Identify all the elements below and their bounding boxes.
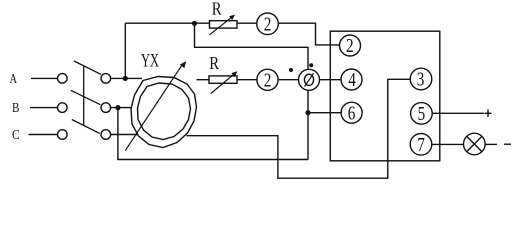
junction dot on top rail bbox=[192, 21, 197, 26]
svg-text:C: C bbox=[12, 128, 20, 143]
wire A to regulator bbox=[111, 77, 142, 79]
wire terminal 7 to lamp bbox=[432, 143, 464, 145]
svg-text:R: R bbox=[209, 53, 219, 73]
switch blade A bbox=[74, 61, 101, 74]
voltage regulator outer ring bbox=[131, 77, 197, 148]
switch blade B bbox=[71, 90, 101, 104]
wire B to regulator bbox=[111, 107, 132, 109]
wire riser from A junction to top rail bbox=[124, 23, 126, 78]
svg-text:6: 6 bbox=[348, 102, 356, 124]
polarity dot near phase shifter top bbox=[309, 63, 313, 67]
plus sign bbox=[485, 112, 492, 114]
phase shifter phi symbol bbox=[304, 74, 313, 85]
switch contact circle B left bbox=[58, 103, 68, 113]
meter circle 2a bbox=[257, 13, 279, 35]
svg-text:A: A bbox=[10, 72, 18, 87]
wire A lead bbox=[31, 77, 57, 79]
switch gang linkage bar bbox=[83, 66, 85, 126]
wire top rail right segment bbox=[278, 23, 340, 45]
switch contact circle B right bbox=[101, 103, 111, 113]
phase shifter circle bbox=[299, 69, 320, 90]
wire B lead bbox=[30, 107, 57, 109]
terminal circle 2 bbox=[340, 35, 361, 56]
wire C to regulator bbox=[111, 134, 141, 136]
switch blade C bbox=[72, 120, 100, 134]
wire C lead bbox=[29, 134, 58, 136]
terminal box bbox=[330, 31, 440, 161]
wire R2 to meter 2b bbox=[237, 79, 257, 81]
svg-text:4: 4 bbox=[348, 69, 356, 91]
wire top rail mid segment bbox=[237, 22, 257, 24]
switch contact circle A left bbox=[58, 74, 68, 84]
resistor R1 body bbox=[210, 21, 238, 28]
svg-text:7: 7 bbox=[417, 134, 425, 156]
switch contact circle C right bbox=[101, 130, 111, 140]
terminal circle 7 bbox=[410, 134, 432, 156]
switch contact circle C left bbox=[58, 130, 68, 140]
polarity dot left of phase shifter bbox=[289, 68, 293, 72]
junction dot on drop bbox=[305, 110, 310, 115]
svg-text:B: B bbox=[12, 101, 19, 116]
terminal circle 6 bbox=[341, 102, 362, 123]
svg-text:5: 5 bbox=[418, 103, 426, 125]
terminal circle 4 bbox=[341, 69, 362, 90]
terminal circle 5 bbox=[411, 103, 433, 125]
wire branch to terminal 6 bbox=[308, 112, 341, 114]
wire lamp to minus bbox=[485, 143, 497, 145]
wire second rail from junction to phase shifter top bbox=[195, 23, 309, 69]
minus sign bbox=[504, 143, 511, 145]
voltage regulator adjust arrow bbox=[125, 64, 182, 150]
meter circle 2b bbox=[257, 69, 278, 90]
wire regulator output to R2 bbox=[197, 79, 210, 81]
svg-text:2: 2 bbox=[264, 13, 272, 35]
resistor R2 adjust arrow bbox=[211, 74, 234, 93]
wire 2b to phase shifter bbox=[279, 79, 299, 81]
resistor R1 adjust arrow bbox=[210, 17, 232, 35]
indicator lamp bbox=[464, 133, 486, 155]
switch contact circle A right bbox=[101, 74, 111, 84]
svg-text:2: 2 bbox=[264, 69, 272, 91]
svg-text:YX: YX bbox=[141, 50, 159, 71]
terminal circle 3 bbox=[410, 68, 432, 90]
voltage regulator inner ring bbox=[138, 83, 191, 140]
svg-text:R: R bbox=[212, 0, 222, 19]
svg-text:3: 3 bbox=[417, 69, 425, 91]
wire terminal 5 to plus bbox=[432, 112, 484, 114]
wire phase shifter to terminal 4 bbox=[320, 79, 342, 81]
junction dot on B wire bbox=[115, 105, 120, 110]
wire top rail left segment bbox=[125, 22, 209, 24]
junction dot on A wire bbox=[123, 76, 128, 81]
wire phase shifter bottom drop bbox=[307, 90, 309, 159]
svg-text:2: 2 bbox=[346, 35, 354, 57]
wire B tap down and across bbox=[118, 108, 308, 160]
wire regulator bottom output bbox=[187, 79, 411, 178]
resistor R2 body bbox=[209, 76, 237, 83]
